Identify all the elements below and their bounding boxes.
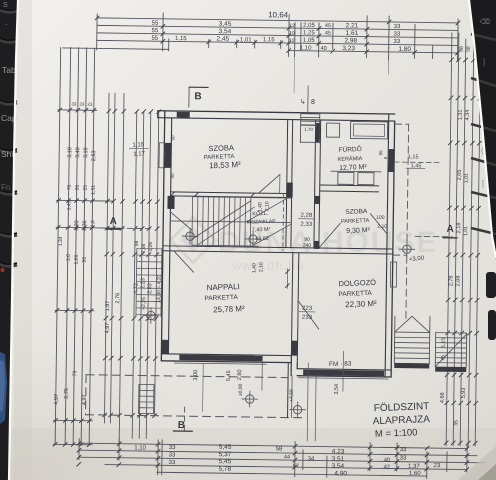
svg-text:58: 58 xyxy=(276,446,283,452)
pillar right wall dolgozo xyxy=(390,262,396,287)
partial keys lower right edge xyxy=(486,272,496,298)
key gaps right xyxy=(471,34,496,40)
svg-text:3,00: 3,00 xyxy=(193,370,199,381)
svg-text:33: 33 xyxy=(169,452,176,458)
svg-text:4,23: 4,23 xyxy=(332,448,345,455)
door jamb mark divider xyxy=(286,269,288,289)
divider wall nappali/dolgozo xyxy=(291,253,292,356)
pier szoba18 wall bottom xyxy=(287,183,293,198)
svg-text:3,10: 3,10 xyxy=(83,147,89,158)
svg-text:25,78 M²: 25,78 M² xyxy=(213,304,245,314)
svg-text:1,40: 1,40 xyxy=(252,263,258,273)
exterior wall left xyxy=(161,111,164,361)
svg-text:2,80: 2,80 xyxy=(237,370,243,381)
exterior wall top xyxy=(158,111,395,114)
radiator/pillar bar right wall xyxy=(388,149,394,172)
svg-text:2,78: 2,78 xyxy=(448,275,454,286)
porch step 2 xyxy=(139,389,154,391)
porch step 4 xyxy=(139,401,154,403)
exterior wall bottom (dolgozo) xyxy=(297,369,391,370)
svg-text:55: 55 xyxy=(151,36,158,42)
right stair1 tread 2 xyxy=(395,336,430,338)
svg-text:88: 88 xyxy=(459,46,465,52)
svg-text:KERÁMIA: KERÁMIA xyxy=(338,155,363,163)
svg-text:1,01: 1,01 xyxy=(240,37,252,43)
svg-text:4,36: 4,36 xyxy=(82,220,88,231)
door stair hall bottom left (entry door swing) xyxy=(170,212,192,230)
right stair2 base bar xyxy=(435,367,466,372)
left chain vertical x84 xyxy=(81,48,87,445)
svg-text:33: 33 xyxy=(168,460,175,466)
bathtub xyxy=(350,121,387,139)
svg-text:33: 33 xyxy=(169,445,176,451)
right stair1 tread 6 xyxy=(394,357,429,359)
svg-text:55: 55 xyxy=(152,28,159,34)
left ext stair tread 7 xyxy=(136,287,161,289)
svg-text:S: S xyxy=(3,2,8,9)
top chain vertical x94 xyxy=(96,14,99,50)
svg-text:3,54: 3,54 xyxy=(331,463,344,470)
svg-text:2,0: 2,0 xyxy=(90,220,96,227)
bottom chain vertical x122 xyxy=(118,439,120,460)
svg-text:DOLGOZÓ: DOLGOZÓ xyxy=(338,278,376,288)
svg-text:2,05: 2,05 xyxy=(303,23,315,29)
svg-text:Fn: Fn xyxy=(1,183,10,192)
svg-text:5,78: 5,78 xyxy=(218,466,231,473)
dashed porch/terrace rectangle xyxy=(86,375,288,378)
svg-text:Tab: Tab xyxy=(2,65,16,75)
porch steps bottom-left xyxy=(138,384,140,413)
top chain vertical x386 xyxy=(388,16,391,60)
svg-text:2,45: 2,45 xyxy=(216,36,229,43)
bottom chain vertical x306 xyxy=(302,450,304,470)
exterior wall step between nappali and dolgozo xyxy=(290,356,292,376)
top chain line 1 (overall 10,64) xyxy=(97,18,458,23)
door szoba9 right (to terrace) xyxy=(370,214,387,234)
svg-text:www.dh.hu: www.dh.hu xyxy=(231,258,305,273)
section line B-B top marker xyxy=(188,87,190,107)
survey marker stair right xyxy=(249,235,258,244)
svg-text:1,05: 1,05 xyxy=(303,38,315,44)
left inner vertical x142 xyxy=(139,112,144,439)
entry step 3 xyxy=(301,120,320,122)
window bar nappali xyxy=(179,355,262,362)
svg-text:1,70: 1,70 xyxy=(304,127,313,132)
top chain vertical x412 xyxy=(414,24,416,58)
window bar left wall (szoba window) xyxy=(164,143,171,168)
left ext stair tread 5 xyxy=(137,274,162,276)
right chain vertical x456 xyxy=(453,33,459,446)
svg-text:1,06: 1,06 xyxy=(148,242,154,252)
porch step 1 xyxy=(139,383,154,385)
svg-text:2,63: 2,63 xyxy=(91,150,97,161)
right stair1 tread 4 xyxy=(395,347,430,349)
stair landing diagonal b xyxy=(252,224,290,247)
entry step 2 xyxy=(301,116,320,118)
svg-text:1,80: 1,80 xyxy=(398,46,411,53)
svg-text:+2,25: +2,25 xyxy=(141,297,147,310)
svg-text:↳: ↳ xyxy=(300,98,306,106)
svg-text:68: 68 xyxy=(134,240,140,246)
survey marker porch right xyxy=(293,405,302,414)
svg-text:1,10: 1,10 xyxy=(300,46,312,52)
left chain vertical x92 xyxy=(89,48,95,445)
wall under szoba18 xyxy=(171,192,287,194)
mid horizontal wall y247-252 xyxy=(163,246,393,249)
svg-text:PARKETTA: PARKETTA xyxy=(341,218,370,225)
svg-text:4,97: 4,97 xyxy=(105,323,111,334)
svg-text:4,90: 4,90 xyxy=(334,470,347,477)
svg-text:1,37: 1,37 xyxy=(408,464,420,470)
svg-text:35: 35 xyxy=(453,420,459,426)
svg-text:⌫: ⌫ xyxy=(480,18,490,26)
left inner vertical x122 xyxy=(119,93,124,446)
top chain tick vertical x234 xyxy=(236,40,238,48)
svg-text:1,41: 1,41 xyxy=(66,200,72,210)
svg-text:2,98: 2,98 xyxy=(344,37,357,44)
bottom chain line 2 xyxy=(79,450,477,456)
entry step 4 xyxy=(301,124,320,126)
svg-text:55: 55 xyxy=(378,150,383,156)
dashed leader 1,15/1,45 xyxy=(394,161,439,164)
svg-text:2,83: 2,83 xyxy=(147,283,153,294)
window sill protrusion left xyxy=(158,143,160,168)
svg-text:1,25: 1,25 xyxy=(303,30,315,36)
svg-text:1,06: 1,06 xyxy=(74,254,80,264)
top chain vertical x455 xyxy=(457,19,460,61)
svg-text:2,76: 2,76 xyxy=(64,388,70,399)
svg-text:33: 33 xyxy=(393,39,400,45)
key gap left 4 xyxy=(0,150,17,152)
top chain tick vertical x206 xyxy=(208,39,210,47)
watermark diamond logo xyxy=(170,217,215,262)
right chain vertical x449 xyxy=(446,33,452,446)
left ext stair tread 6 xyxy=(136,280,161,282)
svg-text:FM · 83: FM · 83 xyxy=(329,361,352,368)
svg-text:3,10: 3,10 xyxy=(67,147,73,158)
svg-text:12,70 M²: 12,70 M² xyxy=(339,164,368,172)
pier szoba9 wall top xyxy=(315,196,321,204)
key gap left 7 xyxy=(0,264,17,266)
svg-text:12: 12 xyxy=(289,23,295,29)
left inner vertical x113 xyxy=(110,93,115,423)
survey marker porch xyxy=(246,395,255,404)
right stair1 tread 1 xyxy=(395,331,430,333)
svg-text:23: 23 xyxy=(433,463,440,469)
svg-text:90: 90 xyxy=(170,173,175,179)
left chain vertical x68 xyxy=(65,48,71,445)
top chain vertical x364 xyxy=(366,16,369,58)
svg-text:34: 34 xyxy=(308,456,315,462)
svg-text:25: 25 xyxy=(83,185,89,191)
svg-text:]: ] xyxy=(483,59,485,66)
paper edge highlight xyxy=(9,0,18,480)
bathroom bottom wall xyxy=(320,184,379,187)
right stair2 tread 2 xyxy=(436,337,467,339)
top chain vertical x292 xyxy=(294,23,296,57)
svg-text:SZOBA: SZOBA xyxy=(345,208,368,216)
left chain vertical x76 xyxy=(73,48,79,445)
porch step 3 xyxy=(139,395,154,397)
key gap left 1 xyxy=(0,10,17,12)
bottom chain vertical x161 xyxy=(157,440,159,475)
svg-text:4,97: 4,97 xyxy=(54,394,60,405)
bottom chain vertical x430 xyxy=(426,452,428,479)
svg-text:2,05: 2,05 xyxy=(457,170,463,181)
bottom chain line 3 xyxy=(79,457,485,463)
svg-text:A: A xyxy=(110,216,117,227)
svg-text:1,31: 1,31 xyxy=(458,110,464,121)
survey marker nappali left xyxy=(147,311,156,320)
right exterior stair 2 xyxy=(434,333,436,367)
svg-text:±0,00: ±0,00 xyxy=(238,383,244,396)
right stair2 tread 1 xyxy=(436,332,467,334)
right exterior stair 1 xyxy=(393,316,396,363)
main interior staircase xyxy=(193,197,291,198)
svg-text:33: 33 xyxy=(71,102,77,107)
right stair2 tread 6 xyxy=(435,357,466,359)
extension verticals chain to plan xyxy=(293,57,296,93)
paper shading bottom strip xyxy=(0,428,496,480)
left ext stair tread 1 xyxy=(137,247,162,249)
survey marker +3,00 right xyxy=(403,245,412,254)
svg-text:2,28: 2,28 xyxy=(300,213,312,219)
dashed gallery edge x283 xyxy=(282,193,285,250)
exterior wall right xyxy=(385,114,389,377)
bathroom cabinet xyxy=(326,123,339,137)
stair diagonal 1 xyxy=(192,200,251,240)
svg-text:2,21: 2,21 xyxy=(346,22,359,29)
svg-text:M = 1:100: M = 1:100 xyxy=(375,427,418,440)
svg-text:73: 73 xyxy=(72,371,78,377)
right chain vertical x463 xyxy=(460,39,466,446)
svg-text:44: 44 xyxy=(284,455,290,461)
svg-text:33: 33 xyxy=(393,32,400,38)
svg-text:45: 45 xyxy=(325,23,331,29)
svg-text:3,45: 3,45 xyxy=(219,21,232,28)
bottom chain vertical x165 xyxy=(161,440,163,475)
bottom chain vertical x82 xyxy=(78,439,80,460)
svg-text:100: 100 xyxy=(376,215,385,221)
svg-text:7,40 M²: 7,40 M² xyxy=(252,227,271,234)
stair tread 5 xyxy=(212,197,215,245)
svg-text:2,10: 2,10 xyxy=(259,262,265,272)
svg-text:18,53 M²: 18,53 M² xyxy=(209,160,241,170)
svg-text:B: B xyxy=(194,91,201,102)
sill line under nappali window xyxy=(174,363,266,364)
right stair1 tread 3 xyxy=(395,341,430,343)
svg-text:22,30 M²: 22,30 M² xyxy=(345,299,377,309)
svg-text:SZOBA: SZOBA xyxy=(208,143,234,153)
left inner vertical x157 xyxy=(155,112,159,416)
stair tread 3 xyxy=(202,197,205,245)
stair tread 6 xyxy=(217,197,220,245)
wall hall/bathroom + szoba9 left xyxy=(314,120,316,248)
svg-text:1,01: 1,01 xyxy=(464,173,470,183)
keyboard top right corner xyxy=(469,0,496,340)
svg-text:1,15: 1,15 xyxy=(175,36,187,42)
svg-text:58: 58 xyxy=(466,46,472,52)
key gap left 2 xyxy=(0,40,17,42)
svg-text:+4,60: +4,60 xyxy=(289,389,295,402)
stair diagonal 2 xyxy=(197,206,255,246)
stair tread 2 xyxy=(196,197,199,245)
svg-text:1,15: 1,15 xyxy=(408,154,419,160)
washbasin 1 xyxy=(338,172,354,184)
left ext stair tread 2 xyxy=(137,254,162,256)
stair tread 10 xyxy=(239,197,242,245)
svg-text:33: 33 xyxy=(394,24,401,30)
svg-text:2,10: 2,10 xyxy=(264,201,270,211)
exterior wall bottom (nappali) xyxy=(161,354,291,356)
entry step 1 xyxy=(301,113,320,115)
top chain vertical x298 xyxy=(300,23,302,51)
top chain line 4 xyxy=(97,40,458,45)
svg-text:4,34: 4,34 xyxy=(465,110,471,121)
svg-text:B: B xyxy=(178,420,185,431)
svg-text:240: 240 xyxy=(303,243,312,249)
svg-text:76: 76 xyxy=(67,184,73,190)
svg-text:2,76: 2,76 xyxy=(115,293,121,304)
stair tread 1 xyxy=(191,197,194,245)
top chain tick vertical x252 xyxy=(254,40,256,48)
svg-text:10,64: 10,64 xyxy=(268,10,289,19)
svg-text:3,54: 3,54 xyxy=(219,28,232,35)
stair tread 7 xyxy=(223,197,226,245)
svg-text:2,18: 2,18 xyxy=(456,223,462,234)
svg-text:8: 8 xyxy=(311,99,315,106)
svg-text:42: 42 xyxy=(384,464,390,470)
keyboard left strip xyxy=(0,0,18,480)
left chain connector y230 (A-A) xyxy=(56,226,120,229)
vent stack line with label 8 xyxy=(307,86,309,113)
left ext stair tread 4 xyxy=(137,267,162,269)
left inner vertical x135 xyxy=(132,111,137,438)
door hall to nappali xyxy=(174,251,194,272)
entry steps outside top xyxy=(299,113,301,143)
svg-text:A: A xyxy=(446,224,453,235)
pier at stair left xyxy=(167,196,174,209)
right stair1 tread 5 xyxy=(394,352,429,354)
svg-text:40: 40 xyxy=(321,46,327,52)
svg-text:2,08: 2,08 xyxy=(455,276,461,287)
top chain vertical x316 xyxy=(318,23,320,57)
red led dot xyxy=(1,268,5,272)
svg-text:33: 33 xyxy=(79,102,85,107)
paper edge highlight right xyxy=(469,0,496,258)
stair tread 9 xyxy=(233,197,236,245)
svg-text:Shi: Shi xyxy=(1,149,13,159)
svg-text:233: 233 xyxy=(302,315,313,321)
top chain line 3 xyxy=(97,33,458,38)
svg-text:40: 40 xyxy=(384,457,390,463)
entry door bar xyxy=(316,123,320,142)
bottom chain vertical x298 xyxy=(294,442,296,477)
svg-text:33: 33 xyxy=(400,456,407,462)
washbasin 2 xyxy=(358,173,374,185)
svg-text:26: 26 xyxy=(75,185,81,191)
svg-text:5,45: 5,45 xyxy=(219,458,232,465)
svg-text:2,0: 2,0 xyxy=(66,254,72,261)
stair tread 11 xyxy=(244,197,247,245)
section line A-A xyxy=(100,227,150,230)
porch right edge xyxy=(287,363,290,418)
left inner vertical x149 xyxy=(146,112,151,439)
door nappali/dolgozo divider xyxy=(298,301,319,329)
svg-text:1,60: 1,60 xyxy=(409,471,421,477)
svg-text:9,30 M²: 9,30 M² xyxy=(346,227,371,235)
svg-text:3,40: 3,40 xyxy=(75,147,81,158)
svg-text:67: 67 xyxy=(293,463,299,469)
top chain vertical x166 xyxy=(168,39,170,51)
left chain vertical x58 xyxy=(55,47,61,444)
svg-text:10: 10 xyxy=(289,31,295,37)
svg-text:3,23: 3,23 xyxy=(342,45,355,52)
right stair2 tread 5 xyxy=(435,352,466,354)
stair tread 8 xyxy=(228,197,231,245)
pier at divider bottom xyxy=(291,341,297,356)
dim verticals below plan xyxy=(261,355,263,390)
window bar dolgozo xyxy=(303,370,384,377)
svg-text:1,10: 1,10 xyxy=(134,445,146,451)
paper corner shadow bottom right xyxy=(458,446,496,480)
svg-text:1,17: 1,17 xyxy=(133,151,146,157)
top chain line 5 (right half) xyxy=(289,51,458,53)
svg-text:5,45: 5,45 xyxy=(226,370,232,381)
svg-text:1,01: 1,01 xyxy=(463,226,469,236)
bottom chain line 5 xyxy=(157,472,427,476)
bottom chain vertical x400 xyxy=(396,443,398,471)
left chain connector y203 xyxy=(57,199,114,202)
bottom chain vertical x470 xyxy=(466,444,468,472)
washbasin counter xyxy=(331,170,381,173)
svg-text:12: 12 xyxy=(289,38,295,44)
svg-text:4,20: 4,20 xyxy=(74,220,80,231)
left ext stair tread 3 xyxy=(137,261,162,263)
top chain tick vertical x278 xyxy=(280,40,282,48)
left chain connector y423 xyxy=(53,419,92,422)
right stair2 tread 7 xyxy=(435,362,466,364)
svg-text:4,68: 4,68 xyxy=(440,392,446,403)
stair tread 12 xyxy=(249,198,252,246)
door szoba9 left, swing xyxy=(319,223,340,248)
blue object bottom left xyxy=(0,352,7,424)
right stair2 tread 4 xyxy=(436,347,467,349)
left chain bottom connector xyxy=(53,443,92,446)
svg-text:MOZAIKLAP: MOZAIKLAP xyxy=(247,219,276,226)
left ext stair tread 9 xyxy=(136,300,161,302)
svg-text:5,93: 5,93 xyxy=(461,388,467,399)
window bar top wall xyxy=(177,112,190,118)
left chain connector y313 xyxy=(55,309,94,312)
pier szoba9 door jamb xyxy=(314,241,320,249)
top chain line 2 xyxy=(97,25,458,30)
bottom chain vertical x330 xyxy=(326,456,328,477)
svg-text:26: 26 xyxy=(82,257,88,263)
svg-text:2,23: 2,23 xyxy=(140,278,146,289)
left inner vertical x107 xyxy=(104,93,109,423)
sill line under dolgozo window xyxy=(298,378,388,379)
svg-text:PARKETTA: PARKETTA xyxy=(338,290,372,298)
key gap left 5 xyxy=(0,192,17,194)
svg-text:3,54: 3,54 xyxy=(334,384,340,395)
svg-text:1,15: 1,15 xyxy=(263,37,275,43)
bottom chain line 4 xyxy=(105,465,467,470)
stair landing diagonal a xyxy=(246,198,286,223)
top chain left connector xyxy=(63,48,169,49)
svg-text:1,97: 1,97 xyxy=(105,301,111,312)
svg-text:FÖLDSZINT: FÖLDSZINT xyxy=(374,400,430,414)
